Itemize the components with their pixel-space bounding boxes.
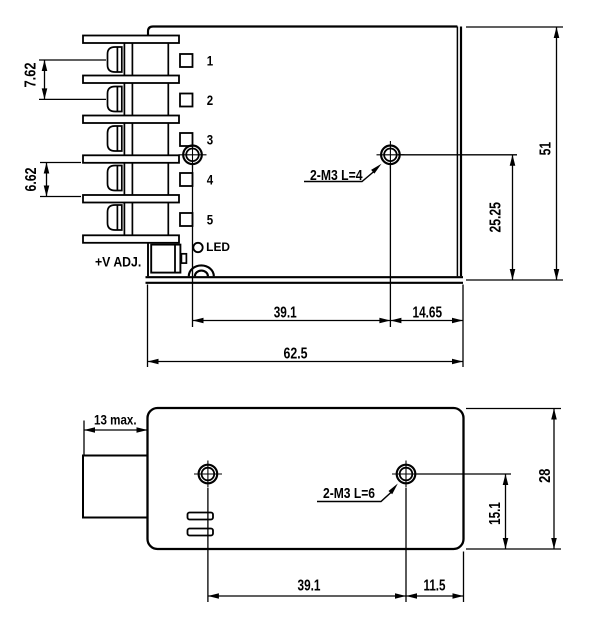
input connector block bbox=[83, 456, 148, 518]
extension lines below top view bbox=[148, 164, 464, 367]
mounting hole bottom-left 2-M3 bbox=[194, 461, 222, 488]
extension lines below bottom view bbox=[208, 488, 464, 602]
terminal fin 5 bbox=[83, 195, 179, 203]
top view case outline bbox=[148, 27, 461, 277]
terminal screw 5 bbox=[108, 205, 122, 230]
terminal screw 2 bbox=[108, 87, 122, 112]
mounting hole bottom-right 2-M3 bbox=[392, 461, 420, 488]
top view chassis bottom plate bbox=[146, 277, 464, 283]
right side extension lines top view bbox=[398, 27, 563, 280]
dimension 7.62 bbox=[39, 60, 106, 99]
pin square 4 bbox=[180, 173, 193, 186]
svg-text:4: 4 bbox=[207, 172, 214, 188]
svg-text:2-M3 L=4: 2-M3 L=4 bbox=[310, 167, 363, 184]
svg-text:2-M3 L=6: 2-M3 L=6 bbox=[323, 485, 375, 502]
svg-text:3: 3 bbox=[207, 131, 214, 147]
bottom view case outline bbox=[148, 408, 464, 549]
dimension 25.25 bbox=[510, 155, 516, 280]
dimension 51 bbox=[554, 27, 560, 280]
svg-text:2: 2 bbox=[207, 92, 214, 108]
leader 2-M3 L=6 bbox=[317, 484, 398, 502]
terminal screw 3 bbox=[108, 126, 122, 151]
svg-text:51: 51 bbox=[538, 142, 555, 156]
dimension 11.5 bbox=[406, 593, 464, 599]
terminal screw 4 bbox=[108, 166, 122, 191]
label LED bbox=[206, 242, 230, 254]
svg-text:7.62: 7.62 bbox=[23, 62, 40, 87]
dimension 6.62 bbox=[40, 163, 81, 197]
svg-text:13 max.: 13 max. bbox=[94, 413, 137, 428]
svg-text:14.65: 14.65 bbox=[413, 304, 443, 321]
potentiometer +V ADJ bbox=[151, 245, 186, 273]
svg-text:6.62: 6.62 bbox=[23, 167, 40, 191]
cable bushing arc bbox=[189, 265, 214, 276]
mounting hole top-left 2-M3 bbox=[179, 145, 207, 169]
right side extension lines bottom view bbox=[416, 409, 561, 550]
dimension 62.5 bbox=[148, 359, 464, 365]
mounting hole top-right 2-M3 bbox=[377, 141, 405, 169]
dimension 39.1 top view bbox=[193, 318, 391, 324]
pin square 1 bbox=[180, 54, 193, 67]
terminal fin 6 bbox=[83, 235, 179, 243]
label +V ADJ. bbox=[95, 254, 141, 269]
terminal body walls bbox=[124, 36, 168, 243]
pin square 5 bbox=[180, 213, 193, 226]
dimension 13 max. bbox=[84, 421, 148, 456]
pin square 2 bbox=[180, 94, 193, 107]
svg-text:+V ADJ.: +V ADJ. bbox=[95, 254, 141, 269]
leader 2-M3 L=4 bbox=[304, 164, 382, 182]
svg-text:LED: LED bbox=[206, 242, 230, 254]
svg-text:11.5: 11.5 bbox=[424, 578, 446, 595]
dimension 28 bbox=[551, 409, 557, 550]
terminal screw 1 bbox=[108, 47, 122, 72]
pin number labels bbox=[207, 52, 214, 227]
vent slot 2 bbox=[188, 529, 214, 536]
terminal fin 3 bbox=[83, 116, 179, 124]
dimension 15.1 bbox=[503, 474, 509, 549]
terminal fin 1 bbox=[83, 36, 179, 44]
svg-text:5: 5 bbox=[207, 212, 214, 228]
terminal fin 4 bbox=[83, 155, 179, 163]
svg-text:39.1: 39.1 bbox=[298, 578, 321, 595]
svg-text:1: 1 bbox=[207, 52, 214, 68]
svg-text:15.1: 15.1 bbox=[487, 502, 504, 525]
pin square 3 bbox=[180, 133, 193, 146]
svg-text:25.25: 25.25 bbox=[488, 202, 505, 233]
LED indicator bbox=[193, 243, 202, 252]
svg-text:62.5: 62.5 bbox=[284, 345, 308, 362]
vent slot 1 bbox=[188, 513, 214, 520]
svg-text:28: 28 bbox=[537, 468, 554, 482]
dimension 39.1 bottom view bbox=[208, 593, 406, 599]
dimension 14.65 bbox=[390, 318, 463, 324]
terminal fin 2 bbox=[83, 76, 179, 84]
svg-text:39.1: 39.1 bbox=[274, 304, 297, 321]
